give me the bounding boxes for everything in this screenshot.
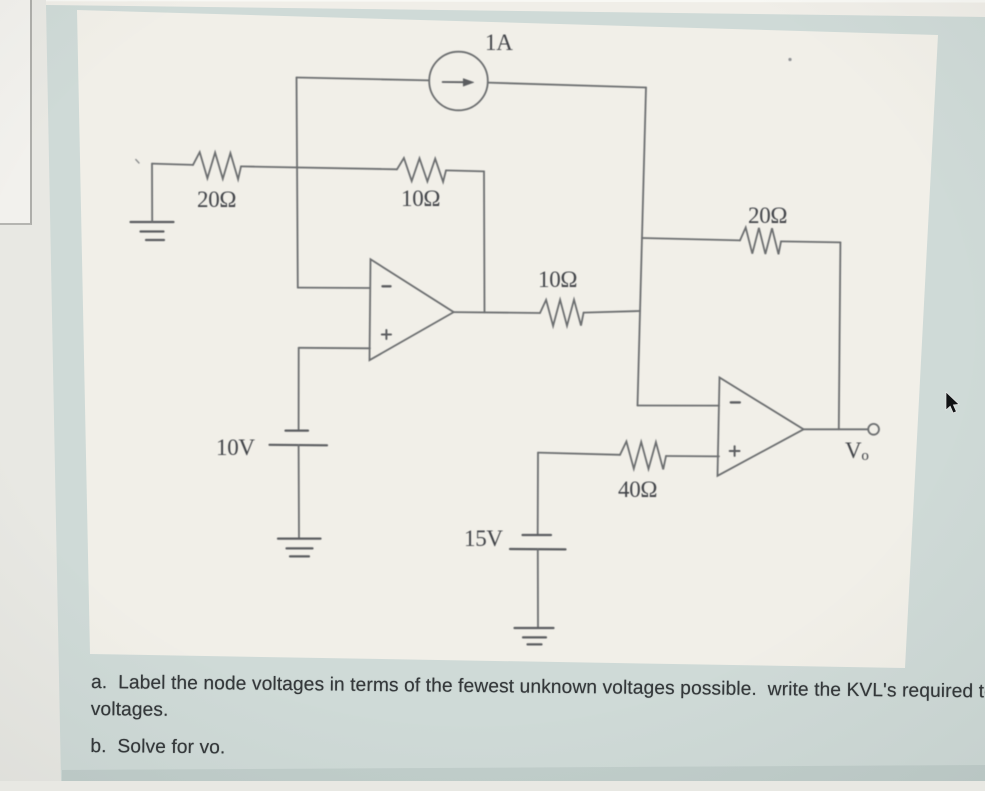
wire: R3 right lead to long vertical (node B) <box>584 311 640 313</box>
resistor R4 20 ohm (feedback) <box>740 228 781 255</box>
wire: R1 right lead across node A to R2 <box>241 166 397 169</box>
wire: U1 non-inverting input <box>299 347 370 350</box>
wire: current source left lead to node A corner <box>297 78 430 81</box>
cream circuit panel <box>77 10 938 668</box>
wire: ground G1 up to 20 ohm left lead <box>151 164 153 222</box>
wire: U1 output to R3 <box>454 311 540 314</box>
op-amp U2 <box>718 378 804 476</box>
U2 plus sign <box>730 446 740 456</box>
battery V2 15V plates <box>510 535 566 549</box>
wire: U1 plus corner down to battery V1 <box>298 348 300 430</box>
wire: battery V2 down to ground G3 <box>537 549 539 627</box>
current source I1 arrow <box>443 79 474 87</box>
ground G2 (under 10V battery) <box>278 539 321 557</box>
wire: R2 right lead to feedback corner <box>446 170 484 171</box>
top band <box>46 0 985 17</box>
ground G1 (left, under 20 ohm input) <box>131 222 174 240</box>
mouse cursor <box>944 391 968 419</box>
resistor R2 10 ohm (top) <box>397 158 446 182</box>
wire: node A vertical down to U1 inverting input <box>297 78 298 288</box>
wire: node B branch to R4 left lead <box>642 238 740 240</box>
bottom darker strip <box>62 765 985 781</box>
wire: current source right lead <box>488 83 646 88</box>
left background window panel <box>0 0 32 225</box>
resistor R3 10 ohm (middle) <box>540 300 584 326</box>
wire: left lead of R1 <box>152 164 193 165</box>
wire: corner down to battery V2 <box>537 453 539 534</box>
resistor R1 20 ohm <box>193 152 241 179</box>
wire: U1 inverting input <box>298 287 370 289</box>
ground G3 (under 15V battery) <box>515 628 554 644</box>
dot speck top right <box>788 58 791 61</box>
wire: battery V1 down to ground G2 <box>298 445 300 538</box>
U1 minus sign <box>383 285 391 287</box>
wire: U2 inverting input <box>638 405 720 407</box>
problem text line 3 <box>90 736 225 759</box>
wire: long vertical from current source to U2 inverting input <box>638 88 647 406</box>
speck near top wire <box>136 160 139 164</box>
battery V1 10V plates <box>270 431 328 446</box>
U2 minus sign <box>731 401 740 403</box>
top white strip <box>46 0 985 3</box>
wire: R4 right lead to corner <box>781 241 840 242</box>
wire: feedback vertical down to U2 output <box>839 242 841 429</box>
wire: U2 output <box>804 428 868 430</box>
output terminal Vo (open circle) <box>868 424 879 435</box>
current source I1 1A <box>429 52 488 111</box>
problem text line 2 <box>91 699 169 722</box>
wire: R5 right lead to U2 non-inverting input <box>666 455 719 457</box>
wire: battery V2 top corner to R5 left lead <box>538 453 620 455</box>
U1 plus sign <box>382 330 391 339</box>
resistor R5 40 ohm <box>620 442 666 470</box>
op-amp U1 <box>370 259 454 360</box>
wire: feedback vertical down to U1 output <box>483 171 486 312</box>
